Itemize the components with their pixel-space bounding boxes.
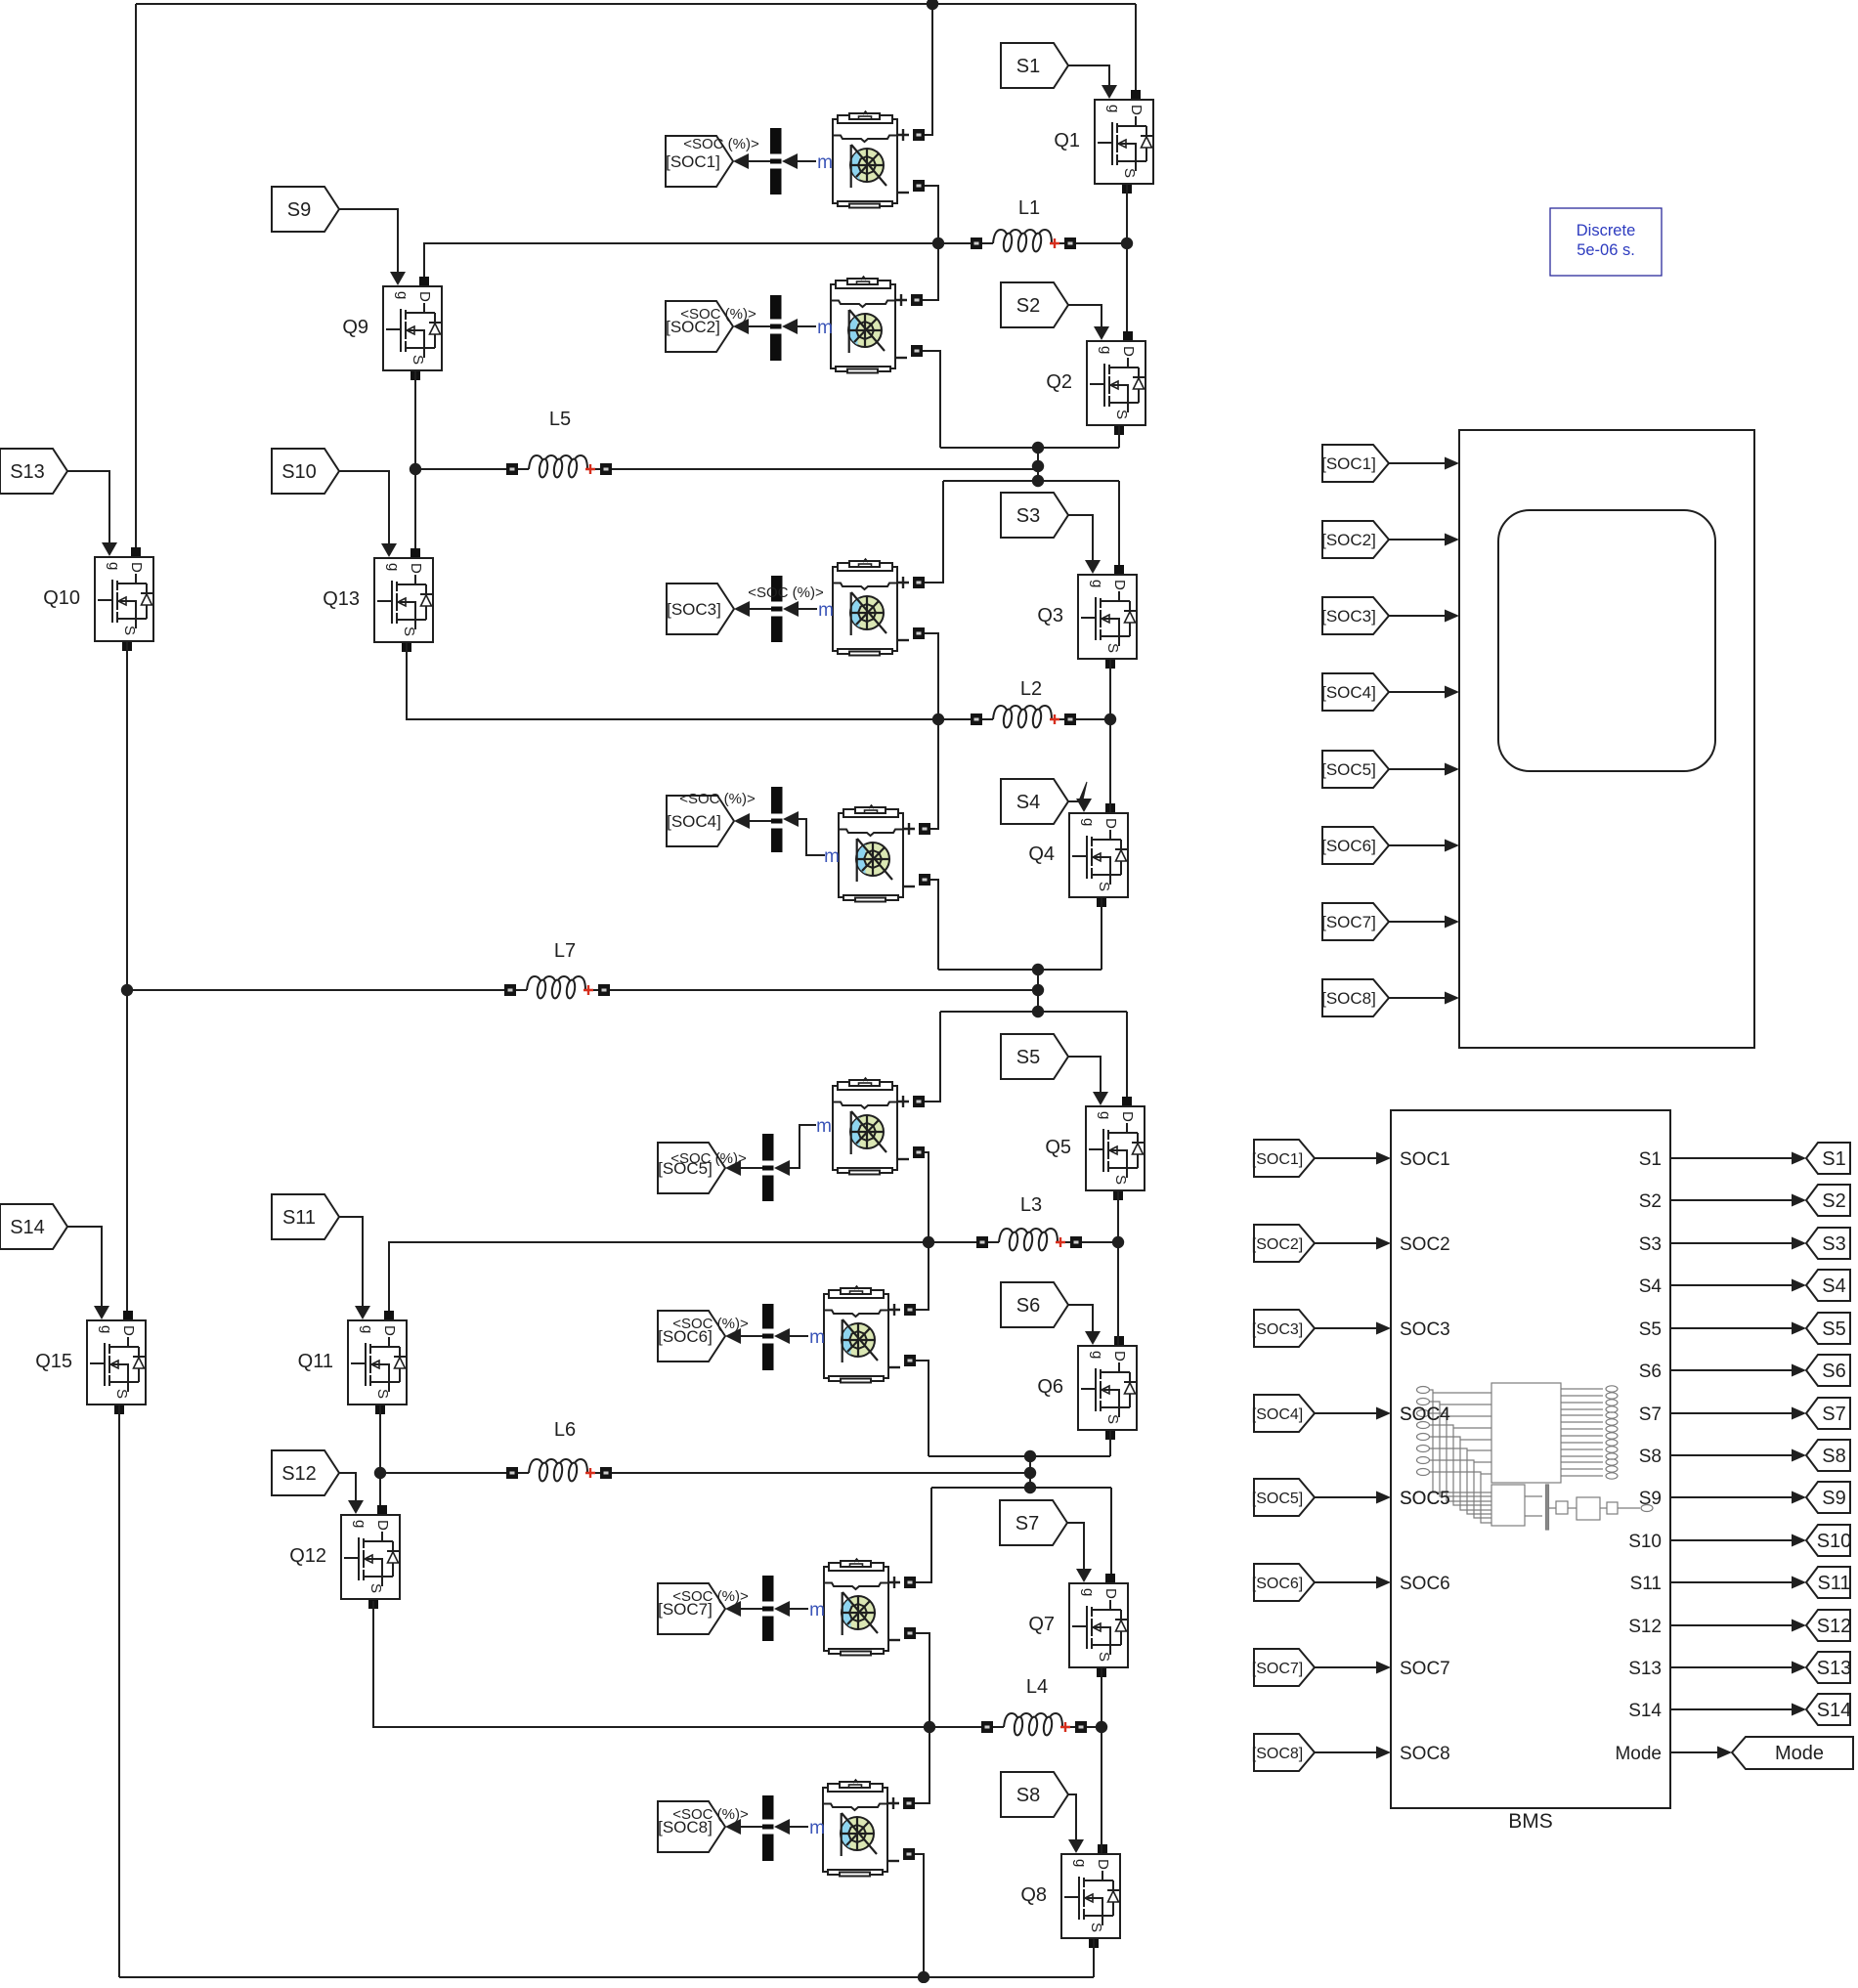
inductor L3 [976,1194,1082,1251]
arrowhead into selector SOC1 [782,153,798,169]
wire S11 out [1670,1581,1792,1583]
wire [386,1472,506,1474]
wire [925,1012,940,1102]
from tag [SOC2] [1252,1225,1315,1262]
svg-text:SOC8: SOC8 [1400,1744,1450,1764]
wire [1110,1488,1112,1574]
wire m to selector SOC1 [798,160,816,162]
from tag [SOC5] [1252,1479,1315,1516]
svg-text:<SOC (%)>: <SOC (%)> [672,1588,749,1605]
svg-text:Q6: Q6 [1037,1376,1063,1398]
goto tag S9 [1806,1482,1850,1513]
+ port SOC6 [904,1304,916,1316]
svg-text:D: D [1095,1859,1111,1870]
from tag S6 [1001,1282,1068,1327]
svg-text:L5: L5 [549,409,571,430]
svg-text:[SOC3]: [SOC3] [1252,1321,1303,1338]
svg-text:S3: S3 [1016,505,1040,527]
wire S2 to gate [1068,305,1102,327]
wire [389,1242,976,1311]
svg-text:<SOC (%)>: <SOC (%)> [672,1806,749,1823]
wire [373,1601,981,1727]
from tag [SOC6] [1252,1564,1315,1601]
wire selector to goto SOC1 [749,160,770,162]
- port SOC5 [913,1146,925,1158]
svg-text:S11: S11 [282,1207,316,1229]
wire S9 to gate [339,209,398,273]
bus selector SOC2 [770,295,782,361]
svg-text:[SOC7]: [SOC7] [1321,913,1376,931]
svg-text:D: D [1102,818,1119,829]
from tag S2 [1001,282,1068,327]
svg-text:m: m [816,1116,832,1137]
wire [424,243,971,277]
node junction [927,0,938,10]
svg-text:[SOC1]: [SOC1] [1252,1151,1303,1168]
wire [923,243,938,300]
wire [790,1125,816,1168]
wire S1 to gate [1068,65,1109,86]
wire [133,989,504,991]
svg-text:SOC3: SOC3 [1400,1319,1450,1340]
goto tag S1 [1806,1143,1850,1174]
gate arrowhead S3 [1085,560,1101,574]
wire [135,4,137,547]
+ port SOC7 [904,1577,916,1588]
gate arrowhead S14 [94,1306,109,1319]
wire SOC1 to BMS [1315,1157,1378,1159]
svg-text:Q15: Q15 [35,1351,72,1372]
gate arrowhead S7 [1076,1569,1092,1582]
wire [925,4,932,135]
- port SOC4 [919,874,930,886]
svg-text:SOC4: SOC4 [1400,1405,1450,1425]
battery cell [833,559,897,656]
svg-text:L7: L7 [554,940,576,962]
wire [925,633,938,719]
node junction [923,1236,934,1248]
wire S7 to gate [1067,1523,1084,1570]
wire S9 out [1670,1496,1792,1498]
svg-text:S2: S2 [1822,1190,1845,1212]
svg-text:Q2: Q2 [1046,371,1072,393]
arrowhead into selector SOC6 [774,1328,790,1344]
inductor L2 [971,678,1076,728]
svg-text:<SOC (%)>: <SOC (%)> [672,1316,749,1332]
svg-text:D: D [381,1325,398,1336]
- port SOC3 [913,627,925,639]
transistor Q13 [323,548,433,652]
svg-text:g: g [1105,105,1122,112]
wire S2 out [1670,1199,1792,1201]
arrowhead into goto SOC5 [725,1160,741,1176]
arrowhead into selector SOC7 [774,1601,790,1617]
wire [915,1727,929,1803]
+ port SOC2 [911,294,923,306]
svg-text:g: g [385,563,402,571]
svg-text:D: D [1111,1351,1128,1361]
scope block [1459,430,1754,1048]
svg-text:S14: S14 [10,1217,45,1238]
wire S10 out [1670,1539,1792,1541]
svg-text:D: D [1128,105,1145,115]
svg-text:m: m [817,318,833,338]
wire [1126,185,1128,331]
BMS port label overpaint [1400,1405,1450,1509]
svg-text:Q11: Q11 [298,1351,333,1372]
svg-text:S12: S12 [281,1463,317,1485]
wire m to selector SOC3 [799,608,817,610]
transistor Q8 [1020,1844,1120,1948]
svg-text:[SOC2]: [SOC2] [1252,1236,1303,1253]
svg-text:g: g [1097,1111,1113,1119]
svg-text:[SOC4]: [SOC4] [667,812,721,831]
svg-text:S10: S10 [281,461,317,483]
+ port SOC4 [919,823,930,835]
svg-text:Discrete: Discrete [1577,222,1636,239]
node junction [1024,1482,1036,1493]
wire S8 to gate [1068,1794,1076,1840]
wire SOC5 to scope [1389,768,1447,770]
svg-text:S12: S12 [1628,1617,1662,1637]
transistor Q15 [35,1311,146,1414]
svg-text:S14: S14 [1817,1700,1852,1721]
- port SOC1 [913,180,925,192]
svg-text:S4: S4 [1016,792,1040,813]
transistor Q10 [43,547,153,651]
bus selector SOC7 [762,1576,774,1641]
- port SOC6 [904,1355,916,1366]
wire S5 out [1670,1327,1792,1329]
wire [1109,660,1111,812]
wire S6 out [1670,1369,1792,1371]
wire [1135,4,1137,90]
arrowhead into goto SOC8 [725,1819,741,1835]
battery cell [823,1780,887,1877]
wire S14 to gate [67,1227,102,1307]
svg-text:S10: S10 [1817,1531,1852,1552]
arrowhead into goto SOC7 [725,1601,741,1617]
wire [923,351,940,448]
arrowhead into goto SOC2 [733,319,749,334]
svg-text:D: D [120,1325,137,1336]
svg-text:S6: S6 [1016,1295,1040,1317]
from tag S5 [1001,1034,1068,1079]
wire [916,1242,929,1310]
svg-text:D: D [128,562,145,573]
svg-text:m: m [818,600,834,621]
battery cell [833,1078,897,1175]
wire SOC7 to scope [1389,921,1447,923]
goto tag S2 [1806,1185,1850,1216]
node junction [1096,1721,1107,1733]
svg-text:<SOC (%)>: <SOC (%)> [748,584,824,601]
wire SOC4 to scope [1389,691,1447,693]
svg-text:m: m [809,1600,825,1621]
svg-text:D: D [416,291,433,302]
wire [612,1472,1030,1474]
from tag [SOC1] [1252,1140,1315,1177]
bus selector SOC3 [771,576,783,642]
wire S3 to gate [1068,515,1093,561]
battery cell [824,1286,888,1383]
svg-text:SOC2: SOC2 [1400,1234,1450,1255]
from tag [SOC8] [1321,979,1389,1016]
svg-text:g: g [1098,346,1114,354]
transistor Q3 [1037,565,1137,669]
wire SOC2 to scope [1389,539,1447,540]
goto tag [SOC8] [658,1801,725,1852]
wire [610,989,1038,991]
svg-text:Q7: Q7 [1028,1614,1055,1635]
svg-text:m: m [809,1327,825,1348]
svg-text:L3: L3 [1020,1194,1042,1216]
svg-text:Q5: Q5 [1045,1137,1071,1158]
wire [119,1976,1094,1978]
wire [938,969,1102,971]
svg-text:L1: L1 [1018,197,1040,219]
BMS subsystem block [1391,1110,1670,1833]
svg-text:g: g [394,291,410,299]
arrowhead into goto SOC3 [734,601,750,617]
svg-text:S9: S9 [1822,1488,1845,1509]
goto tag [SOC1] [666,136,733,187]
wire SOC2 to BMS [1315,1242,1378,1244]
wire [118,1405,120,1977]
gate arrowhead S8 [1068,1839,1084,1853]
bus selector SOC5 [762,1134,774,1201]
goto tag Mode [1732,1737,1853,1769]
svg-text:g: g [352,1520,368,1528]
svg-text:S11: S11 [1817,1573,1850,1594]
svg-text:L4: L4 [1026,1676,1048,1698]
svg-text:D: D [1111,580,1128,590]
svg-text:g: g [1080,818,1097,826]
wire S7 out [1670,1412,1792,1414]
bus selector SOC8 [762,1795,774,1861]
wire [930,880,938,970]
from tag S1 [1001,43,1068,88]
svg-text:m: m [817,152,833,173]
transistor Q1 [1054,90,1153,194]
transistor Q7 [1028,1574,1128,1677]
+ port SOC1 [913,129,925,141]
wire [407,642,971,719]
from tag S11 [272,1194,339,1239]
inductor L4 [981,1676,1087,1736]
wire [929,1455,1110,1457]
goto tag S13 [1806,1652,1851,1683]
node junction [1112,1236,1124,1248]
wire [1109,1431,1111,1456]
transistor Q2 [1046,331,1145,435]
node junction [918,1971,929,1983]
node junction [1032,442,1044,454]
from tag [SOC4] [1321,673,1389,711]
arrowhead into goto SOC1 [733,153,749,169]
svg-text:Mode: Mode [1615,1744,1662,1764]
node junction [1024,1450,1036,1462]
inductor L5 [506,409,612,478]
from tag [SOC7] [1252,1649,1315,1686]
svg-text:D: D [374,1520,391,1531]
svg-text:Q1: Q1 [1054,130,1080,151]
from tag [SOC5] [1321,751,1389,788]
wire selector to goto SOC8 [741,1826,762,1828]
goto tag [SOC4] [667,796,734,846]
wire selector to goto SOC4 [750,820,771,822]
battery cell [824,1559,888,1656]
svg-text:S8: S8 [1639,1447,1662,1467]
wire SOC8 to BMS [1315,1751,1378,1753]
wire S12 out [1670,1624,1792,1626]
svg-text:S6: S6 [1822,1361,1845,1382]
from tag [SOC1] [1321,445,1389,482]
wire m to selector SOC2 [798,325,816,327]
node junction [1032,475,1044,487]
svg-text:Q12: Q12 [289,1545,326,1567]
wire SOC6 to scope [1389,844,1447,846]
svg-text:[SOC8]: [SOC8] [1252,1746,1303,1762]
inductor L7 [504,940,610,999]
wire SOC5 to BMS [1315,1496,1378,1498]
from tag S12 [272,1450,339,1495]
inductor L6 [506,1419,612,1482]
svg-text:S13: S13 [10,461,45,483]
wire selector to goto SOC2 [749,325,770,327]
node junction [1032,984,1044,996]
wire S13 out [1670,1666,1792,1668]
goto tag S14 [1806,1694,1851,1725]
node junction [410,463,421,475]
wire selector to goto SOC6 [741,1335,762,1337]
gate arrowhead S11 [355,1306,370,1319]
wire SOC3 to scope [1389,615,1447,617]
svg-text:[SOC4]: [SOC4] [1252,1406,1303,1423]
- port SOC2 [911,345,923,357]
from tag S14 [0,1204,67,1249]
from tag [SOC4] [1252,1395,1315,1432]
wire [799,819,825,855]
node junction [1121,238,1133,249]
wire [126,642,128,1311]
goto tag S3 [1806,1228,1850,1259]
BMS subsystem preview [1417,1383,1654,1530]
wire [414,371,416,548]
wire SOC8 to scope [1389,997,1447,999]
wire Mode out [1670,1751,1717,1753]
svg-text:Mode: Mode [1775,1743,1824,1764]
wire [943,480,1119,482]
svg-text:S5: S5 [1822,1318,1845,1340]
svg-text:[SOC1]: [SOC1] [1321,454,1376,473]
wire S11 to gate [339,1217,363,1307]
svg-text:S12: S12 [1817,1616,1852,1637]
wire [1126,1012,1128,1097]
svg-text:D: D [1119,1111,1136,1122]
gate arrowhead S12 [348,1500,364,1514]
svg-text:D: D [1102,1588,1119,1599]
svg-text:S1: S1 [1639,1149,1662,1170]
node junction [1104,713,1116,725]
svg-text:S5: S5 [1639,1319,1662,1340]
battery cell [831,277,895,373]
wire S6 to gate [1068,1305,1093,1332]
node junction [932,713,944,725]
+ port SOC8 [903,1797,915,1809]
wire [421,468,506,470]
+ port SOC5 [913,1096,925,1107]
gate arrowhead S4 [1076,799,1092,812]
+ port SOC3 [913,577,925,588]
node junction [374,1467,386,1479]
wire [136,3,1136,5]
from tag [SOC2] [1321,521,1389,558]
wire SOC1 to scope [1389,462,1447,464]
wire m to selector SOC8 [790,1826,808,1828]
svg-text:S8: S8 [1016,1785,1040,1806]
gate arrowhead S13 [102,542,117,556]
svg-text:S13: S13 [1817,1658,1852,1679]
svg-text:S6: S6 [1639,1361,1662,1382]
arrowhead into selector SOC5 [774,1160,790,1176]
arrowhead into selector SOC8 [774,1819,790,1835]
svg-text:[SOC3]: [SOC3] [1321,607,1376,626]
wire [915,1854,924,1977]
from tag [SOC3] [1321,597,1389,634]
battery cell [839,805,903,902]
wire SOC6 to BMS [1315,1581,1378,1583]
svg-text:[SOC7]: [SOC7] [1252,1661,1303,1677]
svg-text:S10: S10 [1628,1532,1662,1552]
arrowhead into selector SOC2 [782,319,798,334]
node junction [121,984,133,996]
wire S4 out [1670,1284,1792,1286]
wire [916,1633,929,1727]
svg-text:SOC6: SOC6 [1400,1574,1450,1594]
wire [1076,718,1110,720]
goto tag S6 [1806,1355,1850,1386]
gate arrowhead S1 [1102,85,1117,99]
goto tag [SOC3] [667,583,734,634]
wire SOC4 to BMS [1315,1412,1378,1414]
svg-text:m: m [809,1818,825,1838]
from tag S10 [272,449,339,494]
svg-text:SOC7: SOC7 [1400,1659,1450,1679]
wire [940,1011,1127,1013]
svg-text:[SOC6]: [SOC6] [1321,837,1376,855]
svg-text:S4: S4 [1639,1276,1663,1297]
wire S14 out [1670,1708,1792,1710]
arrowhead into selector SOC4 [783,811,799,827]
from tag [SOC6] [1321,827,1389,864]
arrowhead into goto SOC4 [734,813,750,829]
svg-text:[SOC3]: [SOC3] [667,600,721,619]
inductor L1 [971,197,1076,252]
wire [925,481,943,583]
wire [1037,970,1039,1012]
wire selector to goto SOC3 [750,608,771,610]
node junction [1024,1467,1036,1479]
battery cell [833,111,897,208]
signal flash annotation [1080,782,1088,800]
svg-text:D: D [1120,346,1137,357]
svg-text:S7: S7 [1822,1404,1845,1425]
svg-text:S4: S4 [1822,1275,1845,1297]
wire selector to goto SOC5 [741,1167,762,1169]
from tag S3 [1001,493,1068,538]
gate arrowhead S10 [381,543,397,557]
